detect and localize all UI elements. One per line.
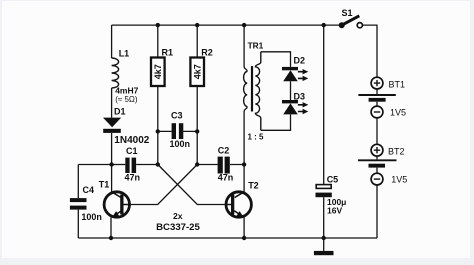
capacitor C5 electrolytic [316, 185, 332, 198]
svg-text:1V5: 1V5 [390, 108, 406, 118]
svg-text:C1: C1 [126, 146, 138, 156]
wire ground lead [323, 238, 325, 251]
wire L1 to D1 [111, 88, 113, 118]
LED D3 [282, 100, 308, 114]
svg-text:T1: T1 [99, 180, 110, 190]
svg-text:1N4002: 1N4002 [114, 135, 149, 146]
svg-text:R2: R2 [201, 48, 213, 58]
svg-text:4k7: 4k7 [192, 64, 202, 79]
wire left branch top [111, 25, 113, 58]
svg-text:C2: C2 [218, 146, 230, 156]
wire S1 to battery corner [362, 25, 377, 77]
svg-text:D3: D3 [294, 92, 306, 102]
capacitor C2 [218, 157, 230, 174]
svg-text:TR1: TR1 [248, 41, 264, 51]
inductor L1 [112, 58, 119, 88]
LED D2 [282, 67, 308, 81]
svg-text:47n: 47n [218, 172, 234, 182]
svg-text:100n: 100n [81, 212, 102, 222]
switch S1 [339, 16, 363, 28]
capacitor C1 [125, 158, 136, 173]
resistor R2 [190, 58, 204, 87]
wire cross coupling R2 node to T1 base [131, 165, 197, 205]
wire C5 branch [323, 25, 325, 238]
svg-text:L1: L1 [119, 49, 130, 59]
transformer TR1 secondary winding [255, 52, 260, 131]
wire R1 branch [157, 25, 159, 164]
wire node A to C1 [112, 164, 126, 166]
svg-text:100n: 100n [170, 139, 191, 149]
transformer TR1 primary winding [244, 72, 248, 107]
wire R2 branch [196, 25, 198, 164]
svg-text:R1: R1 [162, 48, 174, 58]
svg-text:BT2: BT2 [388, 147, 405, 157]
wire TR1 primary bottom lead [244, 107, 247, 165]
wire T1 emitter to rail [110, 217, 112, 238]
diode D1 [103, 118, 121, 133]
svg-text:16V: 16V [327, 205, 342, 215]
node dots bottom rail [109, 236, 326, 240]
transistor T2 [225, 192, 252, 217]
wire secondary top horizontal [261, 52, 291, 67]
svg-text:T2: T2 [248, 181, 259, 191]
wire T2 collector node down [243, 165, 245, 192]
wire TR1 primary top lead [244, 25, 247, 71]
wire C1 to R1 node [136, 164, 158, 166]
node dots top rail [156, 23, 326, 27]
wire D3 to bottom loop [261, 115, 291, 131]
wire bottom rail [78, 237, 377, 239]
node dots mid [109, 129, 246, 167]
svg-text:C5: C5 [327, 175, 339, 185]
capacitor C3 [172, 123, 184, 139]
transformer core [251, 66, 253, 111]
transistor T1 [104, 192, 131, 217]
svg-text:D1: D1 [114, 107, 126, 117]
resistor R1 [151, 58, 165, 87]
wire D1 to node A and T1 collector [111, 133, 113, 192]
svg-text:D2: D2 [294, 56, 306, 66]
wire C3 leads [158, 130, 197, 132]
battery BT2 [358, 144, 397, 185]
wire C4 branch [78, 165, 111, 239]
svg-text:(≈ 5Ω): (≈ 5Ω) [115, 95, 138, 104]
svg-text:1V5: 1V5 [391, 174, 407, 184]
ground [314, 251, 334, 255]
capacitor C4 [70, 198, 87, 210]
wire T2 emitter to rail [243, 217, 245, 238]
svg-text:S1: S1 [342, 8, 353, 18]
svg-text:2x: 2x [173, 211, 183, 221]
svg-text:C3: C3 [171, 111, 183, 121]
svg-text:1 : 5: 1 : 5 [248, 133, 265, 142]
svg-text:47n: 47n [125, 172, 141, 182]
battery BT1 [358, 77, 395, 118]
svg-text:BC337-25: BC337-25 [156, 222, 200, 233]
svg-text:C4: C4 [83, 185, 95, 195]
svg-text:BT1: BT1 [389, 79, 406, 89]
wire battery column segments [376, 89, 378, 238]
svg-text:4k7: 4k7 [153, 64, 163, 79]
wire cross coupling R1 node to T2 base [158, 165, 225, 205]
wire D2 to D3 [290, 81, 292, 100]
wire top rail [112, 24, 342, 26]
wire C2 leads [197, 164, 244, 166]
